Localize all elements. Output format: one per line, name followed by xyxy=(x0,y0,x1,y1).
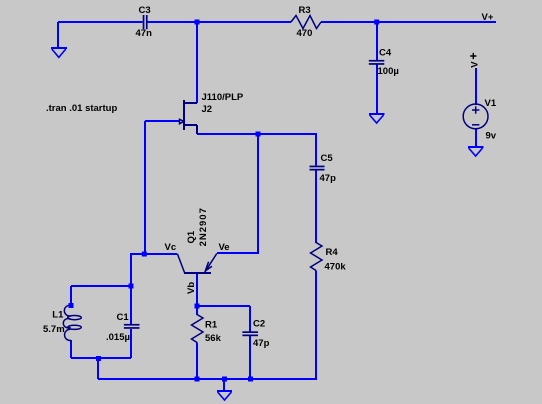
svg-text:C4: C4 xyxy=(379,47,392,58)
svg-text:470: 470 xyxy=(297,28,313,39)
svg-text:Vb: Vb xyxy=(186,282,197,294)
svg-text:R4: R4 xyxy=(326,247,339,258)
svg-text:J110/PLP: J110/PLP xyxy=(202,92,244,103)
svg-text:100µ: 100µ xyxy=(378,66,399,77)
svg-text:470k: 470k xyxy=(325,262,347,273)
svg-text:C1: C1 xyxy=(117,312,130,323)
svg-text:47p: 47p xyxy=(320,173,337,184)
svg-text:2N2907: 2N2907 xyxy=(198,207,209,246)
svg-text:9v: 9v xyxy=(486,130,497,141)
svg-text:47n: 47n xyxy=(136,28,153,39)
svg-text:V1: V1 xyxy=(485,98,497,109)
svg-text:C5: C5 xyxy=(321,153,334,164)
svg-text:Ve: Ve xyxy=(219,242,230,253)
svg-text:Q1: Q1 xyxy=(186,230,197,243)
svg-text:C3: C3 xyxy=(139,5,151,16)
svg-text:V+: V+ xyxy=(482,12,494,23)
svg-text:47p: 47p xyxy=(253,338,270,349)
svg-text:56k: 56k xyxy=(205,333,222,344)
svg-text:Vc: Vc xyxy=(165,242,177,253)
svg-text:5.7m: 5.7m xyxy=(43,324,65,335)
svg-text:.015µ: .015µ xyxy=(106,332,130,343)
svg-text:C2: C2 xyxy=(253,319,265,330)
svg-text:.tran .01 startup: .tran .01 startup xyxy=(46,103,117,114)
svg-text:R3: R3 xyxy=(299,5,311,16)
svg-text:V: V xyxy=(469,61,480,68)
svg-text:J2: J2 xyxy=(202,104,213,115)
svg-text:L1: L1 xyxy=(52,310,64,321)
svg-text:R1: R1 xyxy=(205,320,218,331)
